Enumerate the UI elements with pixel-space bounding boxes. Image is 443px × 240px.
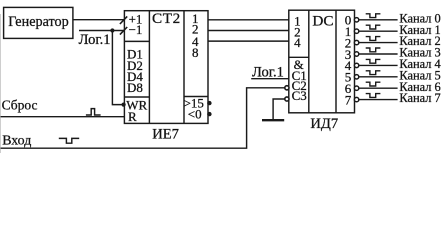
svg-text:C3: C3 <box>292 88 307 103</box>
svg-text:8: 8 <box>192 45 199 60</box>
svg-text:CT2: CT2 <box>152 10 181 27</box>
svg-text:Вход: Вход <box>2 134 31 149</box>
svg-text:DC: DC <box>312 13 333 30</box>
svg-text:−1: −1 <box>129 22 143 37</box>
svg-text:Лог.1: Лог.1 <box>252 65 284 81</box>
svg-text:Сброс: Сброс <box>2 98 38 113</box>
svg-text:D8: D8 <box>127 80 143 95</box>
svg-text:7: 7 <box>345 92 352 107</box>
svg-text:ИД7: ИД7 <box>310 116 338 132</box>
svg-text:Канал 7: Канал 7 <box>399 91 440 105</box>
svg-text:Лог.1: Лог.1 <box>79 32 111 48</box>
svg-text:R: R <box>128 109 137 124</box>
svg-text:<0: <0 <box>188 106 202 121</box>
svg-text:ИЕ7: ИЕ7 <box>152 127 179 143</box>
svg-text:Генератор: Генератор <box>8 14 69 30</box>
svg-text:4: 4 <box>294 35 301 50</box>
